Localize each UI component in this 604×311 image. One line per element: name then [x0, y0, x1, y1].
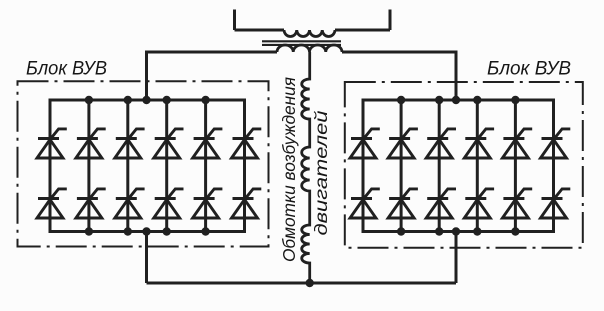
junction dot — [452, 227, 460, 235]
wire left column 3 — [126, 100, 129, 232]
avalanche diode VD2 (left block col 2 top) — [76, 129, 106, 158]
junction dot — [511, 227, 519, 235]
field winding L1 (обмотки возбуждения двигателей) — [302, 52, 310, 283]
wire right block bottom feeder — [455, 232, 458, 284]
junction dot — [85, 96, 93, 104]
avalanche diode VD24 (right block col 6 bottom) — [541, 189, 571, 218]
wire left column 4 — [165, 100, 168, 232]
junction dot — [397, 227, 405, 235]
transformer T1 primary winding — [284, 30, 335, 37]
avalanche diode VD17 (right block col 5 top) — [502, 129, 532, 158]
avalanche diode VD13 (right block col 1 top) — [350, 129, 380, 158]
junction dot — [142, 96, 150, 104]
junction dot — [473, 227, 481, 235]
avalanche diode VD7 (left block col 1 bottom) — [37, 189, 67, 218]
junction dot — [511, 96, 519, 104]
svg-text:Обмотки возбуждения: Обмотки возбуждения — [279, 77, 299, 262]
junction dot — [201, 96, 209, 104]
wire left column 2 — [87, 100, 90, 232]
avalanche diode VD16 (right block col 4 top) — [464, 129, 494, 158]
avalanche diode VD18 (right block col 6 top) — [541, 129, 571, 158]
wire primary left segment — [235, 29, 285, 32]
svg-text:Блок ВУВ: Блок ВУВ — [487, 59, 571, 80]
right block dash-dot border (Блок ВУВ) — [345, 82, 583, 248]
transformer T1 secondary winding — [277, 45, 342, 52]
wire right column 3 — [438, 100, 441, 232]
wire secondary to right block — [342, 52, 456, 100]
wire primary right segment — [335, 29, 390, 32]
avalanche diode VD22 (right block col 4 bottom) — [464, 189, 494, 218]
avalanche diode VD3 (left block col 3 top) — [115, 129, 145, 158]
junction dot — [124, 96, 132, 104]
wire right column 4 — [476, 100, 479, 232]
avalanche diode VD5 (left block col 5 top) — [193, 129, 223, 158]
avalanche diode VD20 (right block col 2 bottom) — [388, 189, 418, 218]
wire right column 5 — [514, 100, 517, 232]
junction dot — [435, 227, 443, 235]
avalanche diode VD14 (right block col 2 top) — [388, 129, 418, 158]
wire left block bottom feeder — [145, 232, 148, 284]
avalanche diode VD4 (left block col 4 top) — [154, 129, 184, 158]
junction dot — [452, 96, 460, 104]
avalanche diode VD15 (right block col 3 top) — [426, 129, 456, 158]
junction dot — [397, 96, 405, 104]
avalanche diode VD11 (left block col 5 bottom) — [193, 189, 223, 218]
svg-text:двигателей: двигателей — [311, 110, 331, 235]
avalanche diode VD1 (left block col 1 top) — [37, 129, 67, 158]
junction dot — [473, 96, 481, 104]
avalanche diode VD10 (left block col 4 bottom) — [154, 189, 184, 218]
junction dot — [201, 227, 209, 235]
avalanche diode VD23 (right block col 5 bottom) — [502, 189, 532, 218]
junction dot — [435, 96, 443, 104]
left rectifier bridge frame (top bus, bottom bus, outer columns) — [50, 100, 245, 232]
wire bottom return bus — [147, 282, 457, 285]
avalanche diode VD12 (left block col 6 bottom) — [232, 189, 262, 218]
wire right column 2 — [400, 100, 403, 232]
avalanche diode VD6 (left block col 6 top) — [232, 129, 262, 158]
left block dash-dot border (Блок ВУВ) — [18, 81, 269, 246]
transformer T1 primary supply stub left — [233, 10, 236, 31]
transformer T1 core — [262, 41, 341, 45]
avalanche diode VD8 (left block col 2 bottom) — [76, 189, 106, 218]
junction dot — [124, 227, 132, 235]
junction dot — [163, 96, 171, 104]
right rectifier bridge frame (top bus, bottom bus, outer columns) — [363, 100, 554, 232]
wire left column 5 — [204, 100, 207, 232]
transformer T1 primary supply stub right — [389, 10, 392, 31]
avalanche diode VD19 (right block col 1 bottom) — [350, 189, 380, 218]
avalanche diode VD9 (left block col 3 bottom) — [115, 189, 145, 218]
svg-text:Блок ВУВ: Блок ВУВ — [26, 59, 107, 80]
wire secondary to left block — [147, 52, 278, 100]
junction dot — [306, 279, 314, 287]
junction dot — [142, 227, 150, 235]
avalanche diode VD21 (right block col 3 bottom) — [426, 189, 456, 218]
junction dot — [85, 227, 93, 235]
junction dot — [163, 227, 171, 235]
